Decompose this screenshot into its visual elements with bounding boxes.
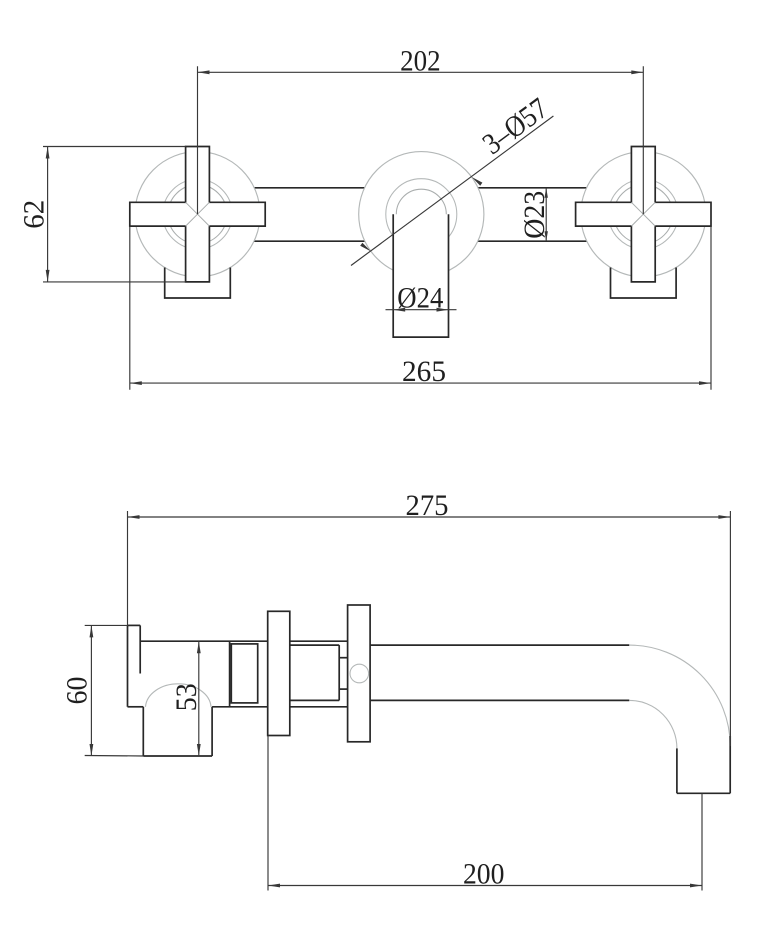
- svg-text:200: 200: [463, 857, 505, 890]
- svg-text:Ø24: Ø24: [397, 282, 443, 315]
- svg-text:275: 275: [406, 489, 449, 522]
- svg-text:53: 53: [170, 683, 203, 711]
- svg-text:60: 60: [61, 677, 94, 705]
- svg-text:Ø23: Ø23: [518, 191, 551, 239]
- svg-text:62: 62: [18, 200, 51, 229]
- svg-text:202: 202: [400, 44, 441, 77]
- svg-text:265: 265: [402, 355, 446, 388]
